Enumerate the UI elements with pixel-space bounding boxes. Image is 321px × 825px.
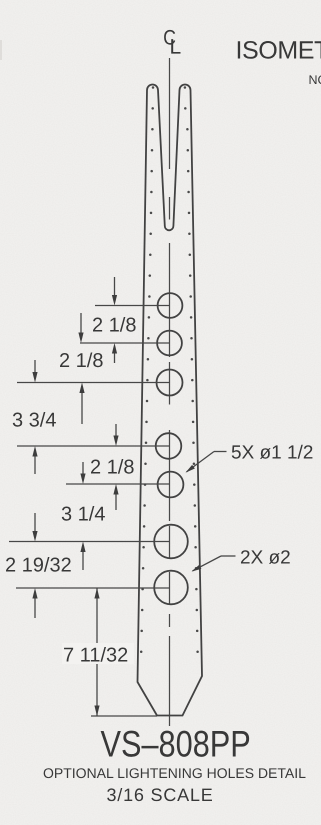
part centerline (dashed)	[169, 58, 171, 726]
label 2X dia 2	[241, 550, 290, 564]
dim text D2 2 1/8	[60, 353, 103, 368]
dim text D3 3 3/4	[13, 412, 56, 427]
part label VS-808PP	[101, 731, 250, 757]
dim D3 arrows (3 3/4)	[34, 360, 36, 374]
lightening hole H7	[154, 571, 188, 605]
lightening hole H5	[158, 472, 184, 498]
leader for 2X holes	[192, 556, 236, 572]
rivet hole dots along flanges	[140, 86, 199, 653]
note NOTES (clipped)	[310, 75, 321, 84]
dim text D5 3 1/4	[62, 506, 105, 521]
extension line E6	[9, 541, 170, 543]
extension line E5	[66, 483, 170, 485]
extension line E4	[17, 445, 170, 447]
lightening hole H2	[157, 331, 182, 356]
dim D5 arrows (3 1/4)	[82, 462, 84, 475]
centerline symbol CL	[164, 30, 175, 45]
lightening hole H4	[156, 433, 182, 459]
label 5X dia 1 1/2	[232, 445, 313, 459]
dim D2 arrows (2 1/8)	[80, 313, 82, 334]
edge smudge artifact	[0, 40, 2, 60]
caption 3/16 SCALE	[107, 788, 212, 801]
extension line E3	[17, 382, 170, 384]
extension line E7	[16, 587, 170, 589]
dim D7 dimension line (7 11/32)	[62, 588, 134, 716]
lightening hole H3	[157, 370, 183, 396]
title ISOMETRIC (clipped)	[238, 41, 321, 59]
caption OPTIONAL LIGHTENING HOLES DETAIL	[44, 768, 306, 778]
dim D6 arrows (2 19/32)	[34, 513, 36, 533]
extension line E1	[95, 305, 170, 307]
leader for 5X holes	[186, 452, 227, 473]
lightening hole H6	[154, 525, 188, 559]
lightening hole H1	[158, 293, 183, 318]
dim text D6 2 19/32	[6, 557, 71, 572]
dim D4 arrows (2 1/8)	[115, 424, 117, 437]
extension line E8	[91, 715, 157, 717]
dim text D7 7 11/32	[64, 647, 127, 662]
part outline (spar profile with forked top, chamfered bottom)	[138, 85, 203, 716]
dim text D4 2 1/8	[91, 459, 134, 474]
extension line E2	[80, 342, 170, 344]
dim text D1 2 1/8	[93, 317, 136, 332]
dim D1 arrows (2 1/8)	[114, 277, 116, 297]
